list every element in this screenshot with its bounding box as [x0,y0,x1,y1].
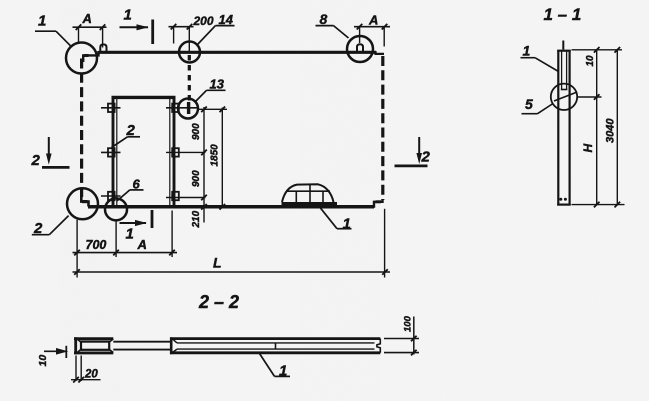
svg-text:1: 1 [126,226,134,243]
callout label 14 [198,12,235,45]
svg-text:200: 200 [193,14,214,28]
section 1-1 dimension 10 / H [572,47,625,207]
anchor marker right middle [166,148,206,156]
plan bottom-left corner step [81,197,88,207]
callout label 6 [117,176,144,201]
svg-text:900: 900 [191,170,202,187]
section mark 2 (left) [31,137,70,169]
callout label 2 (bottom-left circle) [32,216,69,237]
detail circle 8 [347,36,373,62]
section 1-1 groove lines [561,52,568,90]
svg-text:700: 700 [86,238,107,252]
plan top edge [99,51,377,54]
anchor marker right top [166,104,197,112]
callout label 1 (top-left circle) [35,13,71,46]
dimension L [73,209,391,278]
plan top-left corner step [83,51,98,62]
detail circle 14 [179,42,200,63]
dimension chain 1850 [220,107,226,210]
section mark 2 (right) [395,137,431,166]
section 1-1 dimension 3040 [615,47,621,207]
lifting loop top-left [100,44,106,51]
svg-text:2 – 2: 2 – 2 [198,292,239,312]
svg-text:10: 10 [585,55,596,67]
section 2-2 dimension 20 [71,356,101,383]
svg-text:1850: 1850 [210,144,221,167]
svg-text:3040: 3040 [605,118,617,143]
svg-text:A: A [368,13,378,28]
dimension 200 [169,24,194,44]
doorway left jamb thin line [116,99,118,207]
svg-text:100: 100 [403,315,414,332]
callout label 8 [316,11,349,38]
doorway right jamb thick line [173,96,176,207]
doorway top edge [112,96,176,99]
anchor marker left top [101,104,121,112]
detail circle 1 (top-left corner) [66,43,97,74]
vent dome label 1 [320,207,352,233]
section 1-1 weld circle 5 [551,84,577,110]
section 1-1 label 5 [522,96,554,114]
svg-text:A: A [137,237,147,252]
dimension chain 900/900/210 [198,107,228,223]
section 2-2 dimension 10 (left) [44,346,67,358]
svg-text:20: 20 [84,369,98,381]
svg-text:210: 210 [191,210,202,228]
dimension A (top-left) [73,24,107,47]
svg-text:5: 5 [525,96,533,112]
section 1-1 bottom dots [559,198,567,201]
dimension 700 / A (bottom) [73,211,178,278]
svg-text:1: 1 [343,216,351,233]
svg-text:1: 1 [124,7,132,24]
plan left edge (dashed) [80,59,83,198]
anchor marker right bottom [166,192,206,200]
section 2-2 right block [170,337,380,354]
svg-text:A: A [82,11,92,26]
plan bottom-right corner step [374,200,383,208]
section 2-2 label 1 [260,354,291,380]
section 1-1 top tick [562,41,564,50]
section 2-2 middle web [113,342,171,350]
vent dome [282,184,338,204]
centerline dashed (loop 14 to detail 13) [188,28,190,102]
lifting loop top-right (in circle 8) [357,44,363,52]
section 2-2 dimension 100 (right) [384,317,419,356]
section 1-1 panel outline [557,50,571,206]
anchor marker left bottom [101,192,121,200]
detail circle 2 (bottom-left corner) [67,188,98,219]
section mark 1 (top) [120,7,153,45]
detail circle 6 [105,198,127,220]
svg-text:1: 1 [523,42,531,58]
svg-text:10: 10 [37,355,49,367]
svg-text:2: 2 [421,149,431,166]
svg-text:13: 13 [210,77,225,92]
svg-text:1: 1 [38,13,46,30]
svg-text:2: 2 [31,152,41,169]
anchor marker left middle [101,148,121,156]
svg-text:Н: Н [581,144,595,153]
doorway left jamb thick line [112,96,115,207]
section 1-1 label 1 [521,42,559,71]
section mark 1 (bottom) [120,210,153,243]
callout label 2 (doorway) [112,122,141,148]
plan bottom edge [88,205,374,209]
section 2-2 left block [74,337,113,354]
svg-text:1 – 1: 1 – 1 [544,5,582,24]
plan right edge (dashed) [381,56,384,200]
dimension A (top-right) [354,24,390,47]
detail circle 13 [178,99,198,119]
svg-text:L: L [213,255,222,271]
doorway right jamb thin line [169,99,171,207]
plan top-right corner step [376,51,385,54]
callout label 13 [196,77,226,102]
svg-text:900: 900 [191,123,202,140]
